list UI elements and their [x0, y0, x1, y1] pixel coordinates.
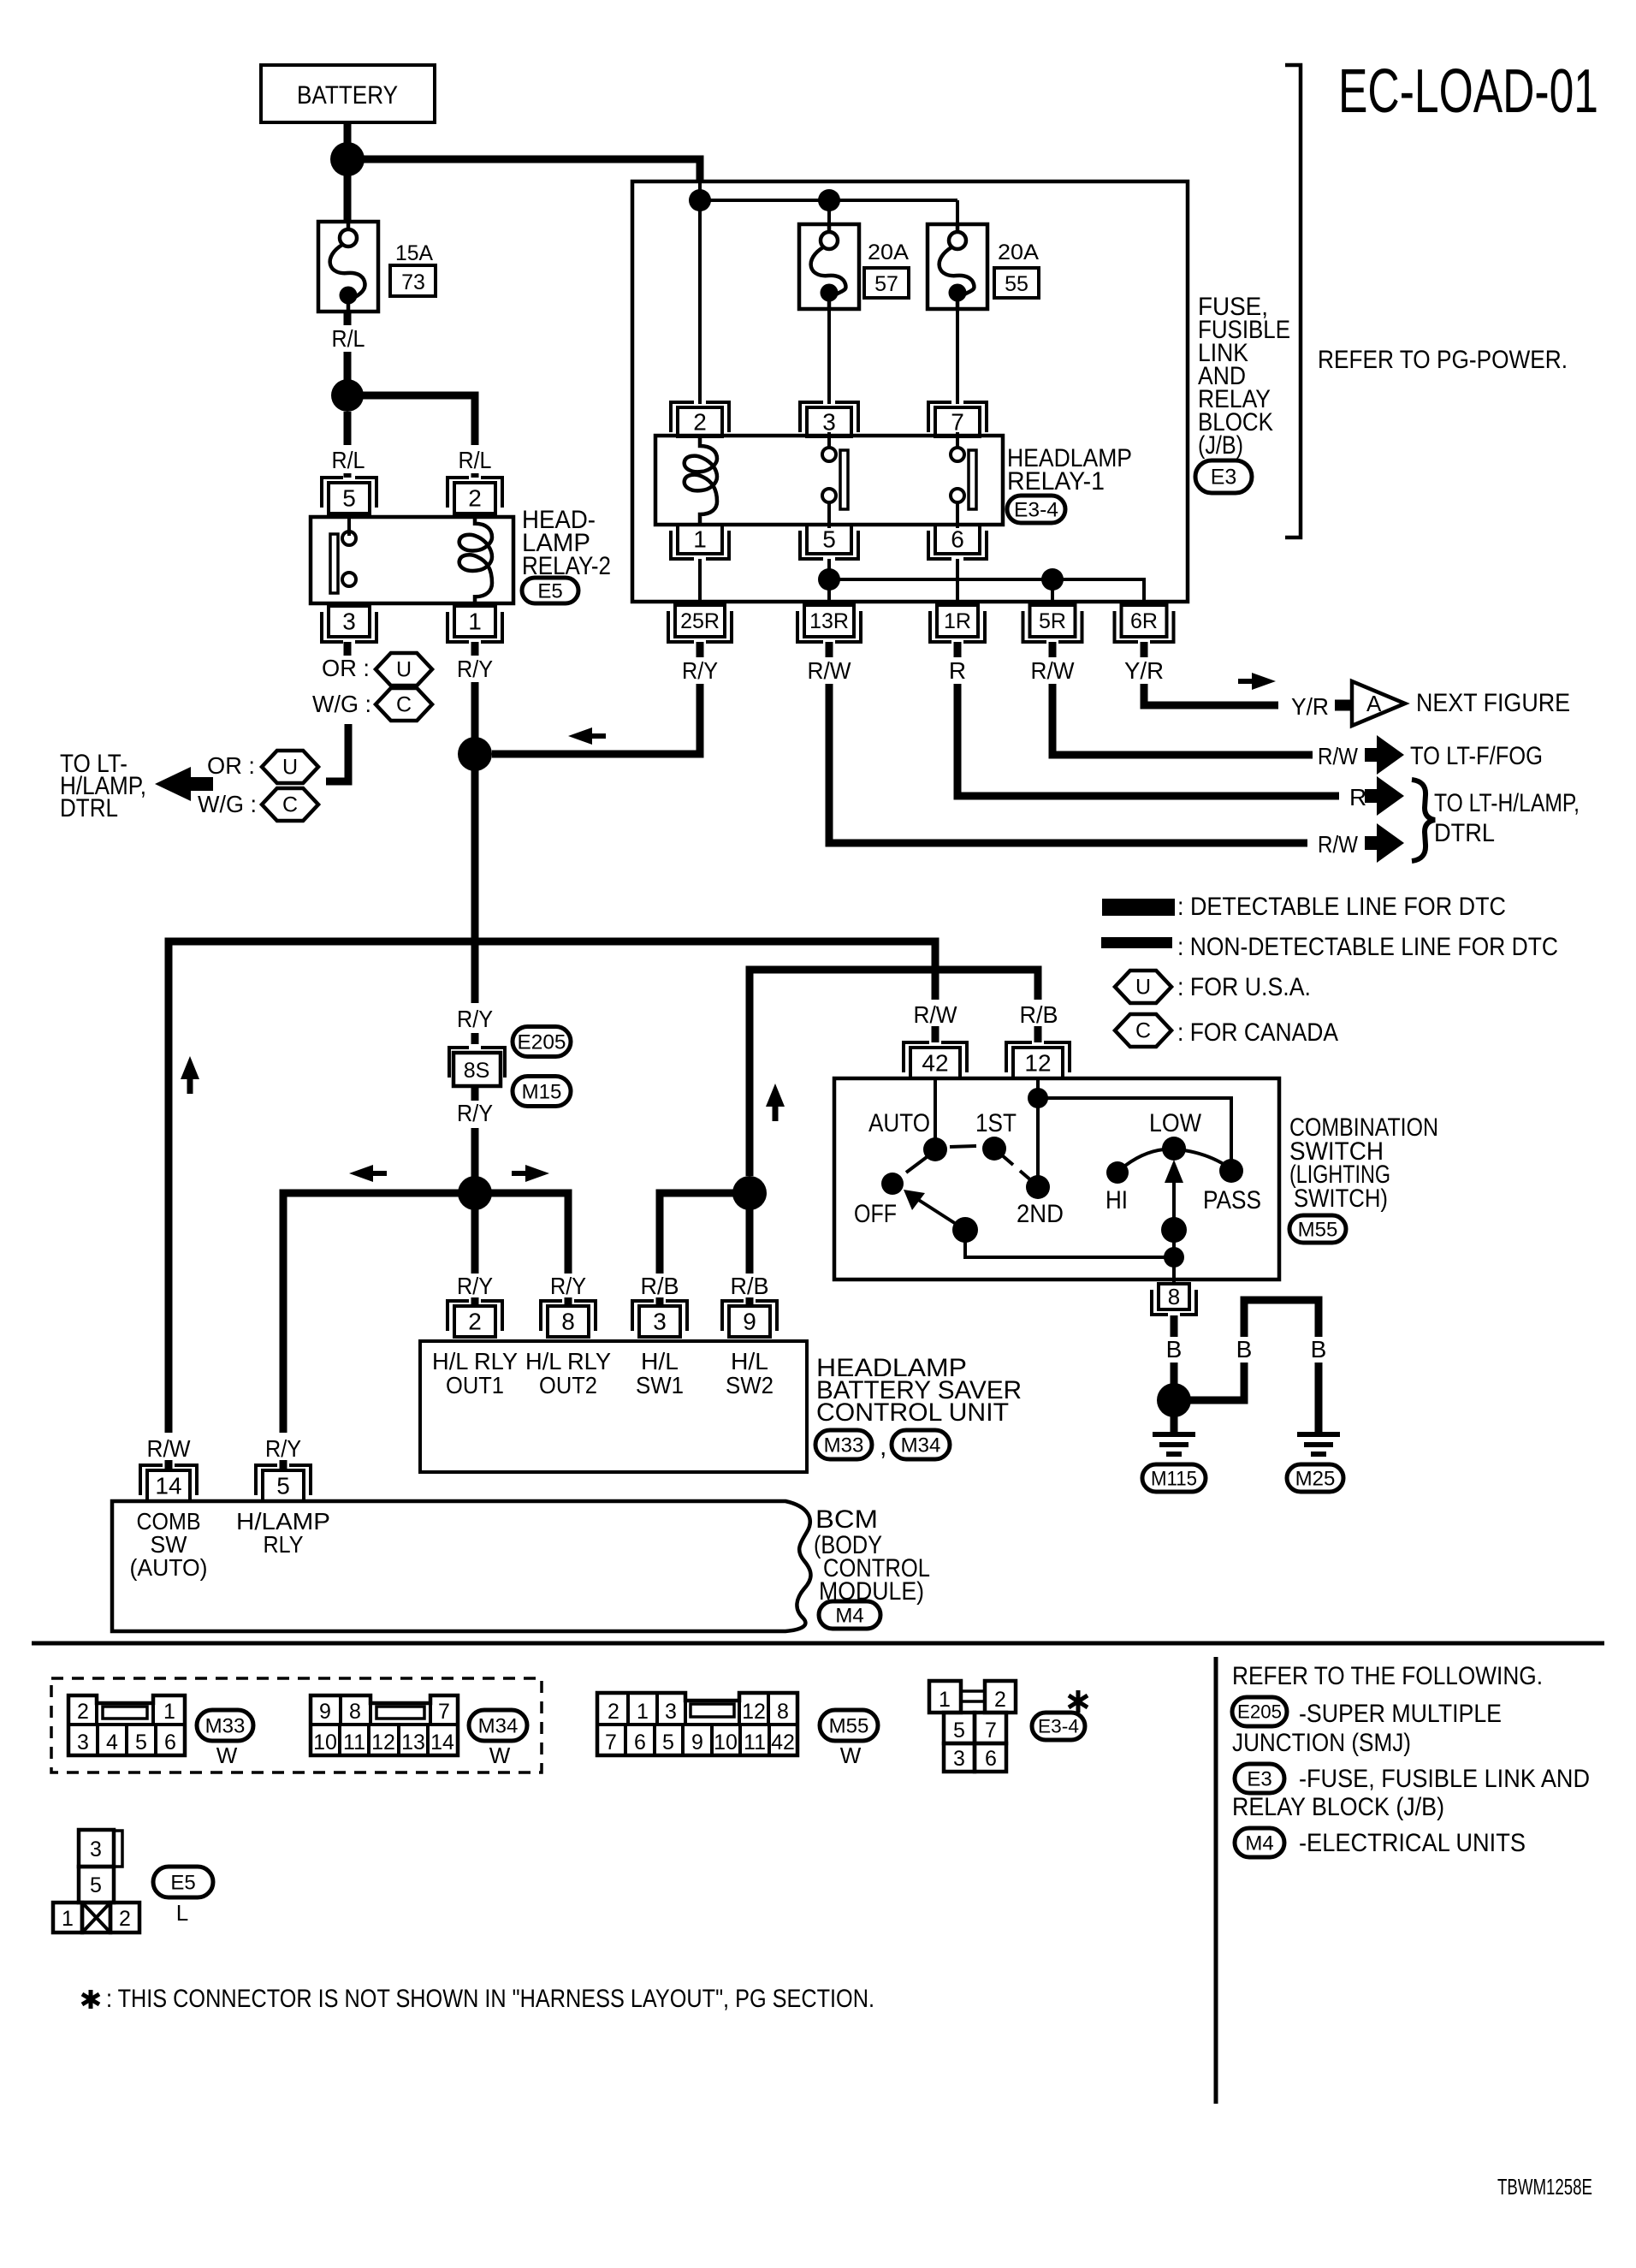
- svg-text:11: 11: [744, 1731, 766, 1754]
- svg-text:R: R: [1349, 784, 1366, 810]
- svg-text:: NON-DETECTABLE LINE FOR DTC: : NON-DETECTABLE LINE FOR DTC: [1177, 933, 1558, 961]
- connector face E5: [79, 1830, 114, 1867]
- relay-1 contact 7-6: [956, 432, 959, 448]
- control unit pin 3: [632, 1301, 687, 1331]
- svg-text:E205: E205: [1237, 1701, 1282, 1723]
- legend C for Canada: [1115, 1014, 1171, 1047]
- svg-text:8: 8: [349, 1700, 361, 1724]
- svg-text:6: 6: [634, 1731, 646, 1754]
- svg-text:25R: 25R: [680, 609, 720, 633]
- connector id M55 bottom: [820, 1710, 878, 1741]
- SMJ connector 8S: [449, 1048, 505, 1078]
- svg-text:4: 4: [106, 1731, 118, 1754]
- svg-text:13R: 13R: [809, 609, 849, 633]
- svg-text:3: 3: [953, 1747, 965, 1771]
- svg-text:12: 12: [1024, 1050, 1051, 1077]
- svg-text:5: 5: [822, 526, 836, 553]
- arrow to LT-H/LAMP DTRL: [191, 777, 213, 791]
- arrow left on R/Y link: [592, 733, 606, 739]
- svg-text:(AUTO): (AUTO): [130, 1554, 208, 1581]
- svg-text:7: 7: [985, 1719, 997, 1743]
- arc HI-LOW: [1121, 1149, 1164, 1169]
- node B3 R/B junction: [732, 1176, 767, 1210]
- svg-text:5R: 5R: [1039, 609, 1066, 633]
- svg-text:3: 3: [665, 1700, 677, 1724]
- wire to ground M115: [1171, 1400, 1178, 1434]
- svg-text:L: L: [176, 1900, 188, 1926]
- svg-text:5: 5: [90, 1873, 102, 1897]
- svg-text:8: 8: [777, 1700, 789, 1724]
- svg-text:5: 5: [342, 485, 356, 512]
- node relay-1 pin 5 branch: [818, 568, 840, 591]
- svg-text:8: 8: [561, 1309, 575, 1335]
- node A1 battery junction: [330, 142, 365, 176]
- svg-text:DTRL: DTRL: [60, 794, 118, 822]
- svg-text:E3: E3: [1211, 466, 1237, 490]
- svg-text:U: U: [1135, 976, 1151, 1000]
- svg-text:M33: M33: [205, 1714, 246, 1737]
- svg-text:R/B: R/B: [641, 1273, 679, 1299]
- contact dot PASS: [1219, 1159, 1243, 1183]
- arrow right at node B2: [512, 1171, 525, 1176]
- wire 8S down R/Y: [471, 1086, 479, 1101]
- battery: [261, 65, 435, 122]
- arrow up on R/B wire: [773, 1107, 779, 1121]
- wire fuse 73 to node A2, R/L: [344, 312, 352, 325]
- comb switch pin 42: [904, 1042, 967, 1072]
- svg-text:14: 14: [155, 1473, 181, 1499]
- headlamp relay-1 pin 3: [800, 402, 858, 432]
- svg-text:M33: M33: [824, 1434, 864, 1457]
- svg-text:H/L RLY: H/L RLY: [432, 1348, 518, 1374]
- svg-text:SW2: SW2: [726, 1372, 774, 1398]
- wire to PASS contact: [1038, 1098, 1231, 1166]
- svg-text:2: 2: [468, 485, 482, 512]
- svg-text:6: 6: [985, 1747, 997, 1771]
- wire 6R Y/R to next figure: [1141, 642, 1148, 657]
- svg-text:14: 14: [430, 1731, 454, 1754]
- svg-text:BATTERY: BATTERY: [297, 81, 398, 110]
- dashed group box M33 M34: [51, 1678, 542, 1772]
- contact dot 1ST: [982, 1137, 1006, 1161]
- svg-text:M4: M4: [835, 1604, 863, 1627]
- legend detectable line: [1102, 899, 1175, 916]
- svg-text:3: 3: [653, 1309, 667, 1335]
- terminal 1R: [930, 611, 985, 642]
- wire node B3 to SW1 pin 3: [660, 1193, 750, 1274]
- svg-text:R/Y: R/Y: [457, 1100, 493, 1126]
- svg-text:M4: M4: [1245, 1832, 1273, 1855]
- svg-text:M25: M25: [1295, 1467, 1336, 1490]
- connector id M55: [1289, 1215, 1346, 1243]
- svg-text:R/Y: R/Y: [550, 1273, 586, 1299]
- connector id E5 bottom: [153, 1867, 213, 1897]
- svg-text:R/Y: R/Y: [457, 1006, 493, 1032]
- svg-text:R/W: R/W: [1031, 657, 1076, 684]
- contact dot 2ND: [1026, 1175, 1050, 1199]
- switch arm path: [965, 1230, 1174, 1257]
- svg-text:E3: E3: [1247, 1767, 1271, 1790]
- svg-text:12: 12: [742, 1700, 766, 1724]
- relay-1 coil: [685, 437, 717, 523]
- svg-text:: FOR U.S.A.: : FOR U.S.A.: [1177, 973, 1311, 1001]
- svg-text:B: B: [1311, 1336, 1327, 1363]
- node B1 R/Y junction: [458, 737, 492, 771]
- svg-text:TO LT-H/LAMP,: TO LT-H/LAMP,: [1434, 789, 1580, 817]
- legend non-detectable line: [1101, 937, 1172, 948]
- svg-text:1: 1: [163, 1700, 175, 1724]
- svg-text:RELAY BLOCK (J/B): RELAY BLOCK (J/B): [1232, 1793, 1444, 1821]
- svg-text:M55: M55: [829, 1714, 869, 1737]
- comb switch pin 12: [1006, 1042, 1070, 1072]
- wire fuse 55 to relay-1 pin 7: [956, 309, 959, 404]
- svg-text:8S: 8S: [464, 1059, 490, 1083]
- svg-text:Y/R: Y/R: [1124, 657, 1164, 684]
- wire relay-1 pin 1 to 25R: [698, 559, 702, 605]
- svg-text:NEXT FIGURE: NEXT FIGURE: [1416, 689, 1570, 717]
- control unit pin 8: [541, 1301, 596, 1331]
- brace TO LT-H/LAMP DTRL: [1412, 780, 1435, 861]
- svg-text:2: 2: [468, 1309, 482, 1335]
- arrow right on Y/R link: [1238, 679, 1252, 684]
- svg-text:57: 57: [874, 272, 898, 296]
- wire node A2 to relay-2 pin 5: [344, 412, 352, 445]
- wire pin 8 down B: [1171, 1315, 1178, 1337]
- svg-text:E5: E5: [170, 1871, 195, 1894]
- svg-text:-FUSE, FUSIBLE LINK AND: -FUSE, FUSIBLE LINK AND: [1299, 1765, 1590, 1793]
- fuse and relay block J/B: [632, 181, 1188, 602]
- wire 13R R/W to LT-H/LAMP DTRL: [826, 642, 833, 657]
- contact dot LOW: [1162, 1137, 1186, 1161]
- svg-text:2: 2: [77, 1700, 89, 1724]
- connector A to next figure: [1352, 681, 1405, 726]
- BCM body with torn edge: [112, 1501, 811, 1631]
- svg-text:EC-LOAD-01: EC-LOAD-01: [1338, 57, 1598, 126]
- BCM pin 14: [140, 1465, 197, 1495]
- dashed link AUTO-1ST: [950, 1146, 976, 1147]
- arrow up on R/W wire: [187, 1079, 193, 1094]
- svg-text:9: 9: [691, 1731, 703, 1754]
- svg-text:U: U: [282, 756, 298, 780]
- svg-text:W: W: [216, 1743, 238, 1768]
- connector id M33 bottom: [197, 1710, 253, 1741]
- svg-text:5: 5: [662, 1731, 674, 1754]
- arrow left at node B2: [373, 1171, 387, 1176]
- headlamp relay-2 body E5: [311, 517, 513, 603]
- relay-2 coil: [459, 514, 492, 606]
- star mark E3-4: [1069, 1690, 1088, 1713]
- svg-text:6R: 6R: [1130, 609, 1158, 633]
- svg-text:TBWM1258E: TBWM1258E: [1497, 2174, 1592, 2200]
- svg-text:8: 8: [1168, 1284, 1180, 1309]
- switch arm to OFF with arrowhead: [917, 1199, 965, 1230]
- fuse 20A 57: [799, 224, 859, 309]
- svg-text:RLY: RLY: [264, 1531, 304, 1558]
- svg-text:20A: 20A: [998, 240, 1039, 264]
- wire node B2 to BCM pin 5: [283, 1193, 475, 1433]
- footnote star: [82, 1990, 99, 2009]
- junction dot at fuse 57 feed: [818, 189, 840, 211]
- svg-text:W: W: [489, 1743, 511, 1768]
- control unit pin 2: [448, 1301, 502, 1331]
- svg-text:A: A: [1366, 691, 1382, 716]
- legend U for USA: [1115, 971, 1171, 1003]
- connector id E3-4: [1007, 496, 1065, 523]
- connector face M33: [68, 1695, 185, 1755]
- svg-text:1: 1: [468, 609, 482, 635]
- svg-text:M115: M115: [1151, 1467, 1197, 1490]
- svg-text:R/W: R/W: [1318, 743, 1358, 769]
- svg-text:12: 12: [371, 1731, 395, 1754]
- svg-text:OFF: OFF: [854, 1200, 897, 1228]
- svg-text:: THIS CONNECTOR IS NOT SHOWN: : THIS CONNECTOR IS NOT SHOWN IN "HARNES…: [106, 1985, 874, 2013]
- svg-text:(J/B): (J/B): [1198, 431, 1243, 460]
- relay-1 contact 3-5: [827, 432, 831, 448]
- svg-text:5: 5: [276, 1473, 290, 1499]
- wire to pin 8: [1172, 1257, 1176, 1284]
- svg-text:2: 2: [994, 1688, 1006, 1712]
- ground M115: [1153, 1434, 1195, 1454]
- connector face E3-4: [929, 1681, 961, 1713]
- svg-text:15A: 15A: [395, 241, 433, 265]
- svg-text:R/L: R/L: [332, 447, 365, 473]
- svg-text:B: B: [1166, 1336, 1183, 1363]
- separator line: [32, 1642, 1604, 1646]
- svg-text:BCM: BCM: [815, 1505, 878, 1534]
- svg-text:B: B: [1236, 1336, 1253, 1363]
- svg-text:9: 9: [743, 1309, 756, 1335]
- wire pin 42 to AUTO contact: [934, 1078, 937, 1143]
- svg-text:W/G :: W/G :: [198, 791, 257, 817]
- svg-text:DTRL: DTRL: [1434, 819, 1495, 847]
- wire ground junction to second B: [1174, 1363, 1244, 1400]
- node B2 R/Y junction: [458, 1176, 492, 1210]
- svg-text:7: 7: [605, 1731, 617, 1754]
- headlamp relay-1 pin 7: [928, 402, 987, 432]
- svg-text:R/Y: R/Y: [457, 656, 493, 682]
- svg-text:42: 42: [771, 1731, 795, 1754]
- wire BCM pin 14 to comb switch 42 R/W: [165, 1460, 173, 1470]
- wire node A1 to fuse 73: [344, 159, 352, 223]
- svg-text:7: 7: [951, 409, 964, 436]
- svg-text:REFER TO THE FOLLOWING.: REFER TO THE FOLLOWING.: [1232, 1662, 1543, 1690]
- svg-text:5: 5: [135, 1731, 147, 1754]
- terminal 5R: [1023, 611, 1082, 642]
- wire node B2 to OUT2 pin 8: [475, 1193, 568, 1274]
- svg-text:1R: 1R: [944, 609, 971, 633]
- svg-text:M15: M15: [522, 1080, 562, 1103]
- terminal 25R: [668, 611, 732, 642]
- wire relay-1 pin 5 to 13R: [827, 559, 831, 605]
- svg-text:Y/R: Y/R: [1291, 693, 1329, 720]
- wire node B1 down to SMJ 8S: [471, 754, 479, 1003]
- headlamp relay-2 pin 5: [322, 478, 376, 508]
- wire node B2 to OUT1 pin 2: [471, 1193, 479, 1274]
- arc LOW-PASS: [1184, 1150, 1229, 1167]
- svg-text:W: W: [840, 1743, 862, 1768]
- svg-text:R: R: [949, 657, 966, 684]
- connector ids M33 M34: [815, 1430, 872, 1459]
- ground M25: [1297, 1434, 1340, 1454]
- wire battery to node A1: [344, 122, 352, 145]
- svg-text:R/W: R/W: [914, 1001, 958, 1028]
- svg-text:R/B: R/B: [1020, 1001, 1058, 1028]
- headlamp relay-1 pin 1: [671, 531, 729, 559]
- svg-text:W/G :: W/G :: [312, 691, 371, 717]
- svg-text:E3-4: E3-4: [1038, 1716, 1079, 1737]
- svg-text:M34: M34: [901, 1434, 941, 1457]
- svg-text:C: C: [282, 793, 298, 817]
- svg-text:6: 6: [951, 526, 964, 553]
- combination switch box M55: [834, 1078, 1279, 1279]
- connector face M55: [597, 1693, 797, 1755]
- svg-text:13: 13: [401, 1731, 425, 1754]
- connector id M115: [1142, 1464, 1206, 1492]
- switch arm dot: [952, 1217, 978, 1243]
- page bracket: [1285, 65, 1301, 537]
- svg-text:2ND: 2ND: [1017, 1200, 1064, 1228]
- headlamp relay-2 pin 3: [322, 612, 376, 642]
- BCM pin 5: [256, 1465, 311, 1495]
- svg-text:M34: M34: [478, 1714, 519, 1737]
- svg-text:: DETECTABLE LINE FOR DTC: : DETECTABLE LINE FOR DTC: [1177, 893, 1506, 921]
- svg-text:OR :: OR :: [207, 752, 255, 779]
- connector id M34 bottom: [469, 1710, 527, 1741]
- svg-text:6: 6: [164, 1731, 176, 1754]
- wire relay-2 pin 3 stub: [344, 642, 352, 656]
- svg-text:55: 55: [1005, 272, 1028, 296]
- wire relay-1 pin 6 to 1R: [956, 559, 959, 605]
- contact dot HI: [1106, 1161, 1129, 1184]
- headlamp relay-1 body: [655, 436, 1003, 525]
- svg-text:REFER TO PG-POWER.: REFER TO PG-POWER.: [1318, 346, 1568, 374]
- headlamp relay-1 pin 6: [928, 531, 987, 559]
- connector id E3: [1195, 460, 1252, 493]
- svg-text:AUTO: AUTO: [868, 1109, 930, 1137]
- svg-text:2: 2: [693, 409, 707, 436]
- wire H/L SW to comb switch 12 R/B: [750, 970, 1038, 1176]
- svg-text:R/W: R/W: [147, 1435, 192, 1462]
- wire node A2 to relay-2 pin 2: [347, 395, 475, 445]
- contact dot OFF: [881, 1173, 904, 1195]
- svg-text:2: 2: [119, 1907, 131, 1931]
- wire relay-2 pin 1, R/Y: [471, 642, 479, 656]
- connector id E5: [522, 578, 578, 603]
- svg-text:OUT1: OUT1: [446, 1372, 504, 1398]
- svg-text:R/L: R/L: [459, 447, 492, 473]
- svg-text:H/L RLY: H/L RLY: [525, 1348, 611, 1374]
- wire branch to 5R and 6R: [829, 579, 1144, 605]
- svg-text:1: 1: [637, 1700, 649, 1724]
- headlamp relay-1 pin 5: [800, 531, 858, 559]
- svg-text:E5: E5: [537, 579, 562, 603]
- svg-text:JUNCTION (SMJ): JUNCTION (SMJ): [1232, 1729, 1411, 1757]
- svg-text:RELAY-1: RELAY-1: [1007, 467, 1105, 496]
- svg-text:C: C: [1135, 1019, 1151, 1043]
- wire LOW feed with up arrow: [1172, 1181, 1176, 1257]
- svg-text:73: 73: [401, 270, 425, 294]
- svg-text:2: 2: [608, 1700, 619, 1724]
- svg-text:42: 42: [922, 1050, 948, 1077]
- connector face M34: [311, 1695, 458, 1755]
- terminal 13R: [797, 611, 861, 642]
- node LOW feed lower: [1164, 1247, 1184, 1268]
- svg-text:R/W: R/W: [808, 657, 852, 684]
- svg-text:1: 1: [939, 1688, 951, 1712]
- svg-text:-ELECTRICAL UNITS: -ELECTRICAL UNITS: [1299, 1829, 1526, 1857]
- svg-text:20A: 20A: [868, 240, 909, 264]
- dashed link OFF-AUTO: [906, 1157, 927, 1173]
- node LOW feed upper: [1161, 1217, 1187, 1243]
- connector id E3-4 bottom: [1032, 1713, 1085, 1740]
- svg-text:5: 5: [953, 1719, 965, 1743]
- svg-text:LOW: LOW: [1149, 1109, 1202, 1137]
- headlamp relay-2 pin 1: [448, 612, 502, 642]
- svg-text:,: ,: [880, 1433, 886, 1461]
- svg-text:R/Y: R/Y: [457, 1273, 493, 1299]
- node ground junction: [1157, 1383, 1191, 1417]
- wire to fuse 57: [827, 200, 831, 226]
- svg-text:SW1: SW1: [636, 1372, 684, 1398]
- terminal 6R: [1115, 611, 1174, 642]
- contact dot AUTO: [923, 1137, 947, 1161]
- headlamp battery saver control unit box: [420, 1341, 807, 1472]
- svg-text:9: 9: [319, 1700, 331, 1724]
- control unit pin 9: [722, 1301, 777, 1331]
- svg-text:-SUPER MULTIPLE: -SUPER MULTIPLE: [1299, 1700, 1502, 1728]
- connector id E205: [513, 1027, 571, 1057]
- svg-text:: FOR CANADA: : FOR CANADA: [1177, 1018, 1338, 1047]
- comb switch pin 8: [1152, 1290, 1196, 1315]
- reference divider: [1214, 1657, 1218, 2104]
- wire to fuse 55: [956, 200, 959, 226]
- headlamp relay-2 pin 2: [448, 478, 502, 508]
- svg-text:10: 10: [313, 1731, 337, 1754]
- svg-text:1ST: 1ST: [975, 1109, 1017, 1137]
- svg-text:OUT2: OUT2: [539, 1372, 597, 1398]
- node A2 R/L junction: [331, 379, 364, 412]
- svg-text:10: 10: [714, 1731, 738, 1754]
- svg-text:M55: M55: [1298, 1218, 1338, 1241]
- svg-text:7: 7: [438, 1700, 450, 1724]
- fuse 20A 55: [928, 224, 987, 309]
- svg-text:E205: E205: [518, 1030, 566, 1054]
- wire fuse 57 to relay-1 pin 3: [827, 309, 831, 404]
- svg-text:3: 3: [90, 1838, 102, 1861]
- svg-text:R/Y: R/Y: [682, 657, 718, 684]
- svg-text:HI: HI: [1105, 1186, 1128, 1214]
- svg-text:OR :: OR :: [322, 655, 370, 681]
- bus wire inside J/B: [698, 181, 702, 205]
- svg-text:R/L: R/L: [332, 325, 365, 352]
- svg-text:H/L: H/L: [731, 1348, 768, 1374]
- svg-text:E3-4: E3-4: [1014, 498, 1058, 521]
- svg-text:R/B: R/B: [731, 1273, 769, 1299]
- connector id M15: [513, 1077, 571, 1107]
- wire bus to relay-1 pin 2: [698, 200, 702, 404]
- svg-text:PASS: PASS: [1203, 1186, 1261, 1214]
- headlamp relay-1 pin 2: [671, 402, 729, 432]
- svg-text:3: 3: [342, 609, 356, 635]
- svg-text:1: 1: [693, 526, 707, 553]
- svg-text:CONTROL UNIT: CONTROL UNIT: [816, 1398, 1009, 1427]
- wire node A1 to J/B: [347, 159, 700, 183]
- svg-text:R/Y: R/Y: [265, 1435, 301, 1462]
- svg-text:TO LT-F/FOG: TO LT-F/FOG: [1410, 742, 1543, 770]
- svg-text:SWITCH): SWITCH): [1294, 1184, 1388, 1213]
- wire 1R R to LT-H/LAMP DTRL: [954, 642, 962, 657]
- wire relay-2 pin 3 to LT-H/LAMP: [326, 724, 348, 781]
